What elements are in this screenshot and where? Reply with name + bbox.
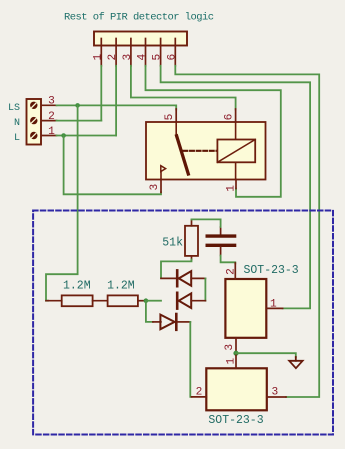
wire: node A down to D3 anode — [146, 301, 153, 322]
svg-text:6: 6 — [166, 54, 178, 61]
net label LS — [8, 103, 20, 114]
connector J1 pin 4 — [137, 39, 149, 66]
svg-text:N: N — [14, 118, 20, 129]
relay switch common line — [175, 122, 177, 135]
svg-text:1: 1 — [270, 298, 277, 310]
wire: R3 bottom to D1 cathode — [161, 260, 192, 278]
wire: node B to ground — [236, 353, 296, 357]
svg-text:51k: 51k — [162, 236, 183, 249]
resistor R2 1.2M — [93, 280, 144, 307]
svg-text:3: 3 — [149, 184, 161, 191]
connector J1 pin 1 — [92, 39, 104, 66]
wire: connector pin4 to relay pin1 — [146, 66, 281, 197]
relay coil box — [217, 140, 255, 163]
terminal block screw 1 — [30, 132, 37, 139]
svg-text:6: 6 — [223, 114, 235, 121]
Q1 pin 1 — [266, 298, 282, 310]
wire: node A to D2 cathode — [148, 300, 161, 302]
wire: LS junction down to R1 — [46, 105, 78, 300]
svg-text:3: 3 — [224, 344, 236, 351]
title note: Rest of PIR detector logic — [64, 12, 214, 24]
svg-text:2: 2 — [107, 54, 119, 61]
Q2 pin 1 — [225, 355, 237, 368]
terminal pin 3 — [42, 96, 57, 108]
relay pin 6 stub — [223, 109, 235, 122]
svg-text:2: 2 — [225, 268, 237, 275]
svg-text:3: 3 — [272, 387, 279, 399]
relay pin 1 stub — [226, 180, 238, 192]
Q1 pin 3 — [224, 338, 236, 351]
junction on L wire — [61, 133, 66, 138]
wire: D1 anode to D2 anode — [204, 278, 206, 300]
wire: L junction to relay pin3 — [64, 136, 161, 195]
wire: connector pin2 to L line — [115, 66, 117, 136]
svg-text:LS: LS — [8, 103, 20, 114]
svg-text:1: 1 — [226, 185, 238, 192]
svg-text:Rest of PIR detector logic: Rest of PIR detector logic — [64, 12, 214, 24]
wire: connector pin3 to relay pin6 — [131, 66, 236, 110]
svg-text:L: L — [14, 133, 20, 144]
dashed boundary box — [33, 211, 333, 435]
wire: LS to relay pin5 — [57, 105, 177, 109]
svg-text:SOT-23-3: SOT-23-3 — [208, 414, 263, 427]
diode D2 — [177, 293, 205, 309]
svg-text:5: 5 — [164, 114, 176, 121]
net label N — [14, 118, 20, 129]
transistor Q2 body SOT-23-3 — [206, 368, 266, 427]
wire: D3 cathode to Q2 pin2 — [190, 322, 191, 397]
svg-text:3: 3 — [48, 96, 55, 108]
svg-text:3: 3 — [122, 54, 134, 61]
svg-text:1: 1 — [92, 54, 104, 61]
Q2 pin 3 — [267, 387, 286, 399]
svg-text:2: 2 — [48, 111, 55, 123]
relay pin 3 stub — [149, 180, 161, 193]
relay coil line — [235, 122, 237, 180]
relay K1 body — [146, 122, 266, 180]
net label L — [14, 133, 20, 144]
connector J1 pin 2 — [107, 39, 119, 66]
svg-text:SOT-23-3: SOT-23-3 — [244, 264, 299, 277]
svg-text:1.2M: 1.2M — [107, 280, 135, 293]
connector J1 body — [94, 32, 187, 46]
terminal pin 2 — [42, 111, 57, 123]
capacitor C1 — [207, 227, 234, 256]
svg-text:1: 1 — [225, 358, 237, 365]
wire: connector pin5 to Q1 pin1 — [161, 66, 311, 309]
relay contact arrow — [161, 166, 166, 180]
junction node B — [233, 351, 238, 356]
svg-text:1: 1 — [48, 126, 55, 138]
svg-text:1.2M: 1.2M — [63, 280, 91, 293]
relay pin 5 stub — [164, 109, 176, 122]
connector J1 pin 5 — [152, 39, 164, 66]
connector J1 pin 3 — [122, 39, 134, 66]
resistor R1 1.2M — [46, 280, 93, 307]
wire: N to connector pin1 — [57, 120, 102, 122]
svg-text:2: 2 — [196, 387, 203, 399]
transistor Q1 body SOT-23-3 — [225, 264, 298, 338]
ground symbol — [289, 357, 302, 368]
relay switch blade — [177, 136, 189, 174]
svg-text:4: 4 — [137, 54, 149, 61]
terminal block TB1 body — [27, 99, 42, 145]
diode D1 — [161, 270, 205, 286]
wire: connector pin1 to N line — [100, 66, 102, 121]
junction on LS wire — [75, 103, 80, 108]
svg-text:5: 5 — [152, 54, 164, 61]
terminal block screw 3 — [30, 102, 37, 109]
terminal block screw 2 — [30, 117, 37, 124]
connector J1 pin 6 — [166, 39, 178, 66]
wire: C1 bottom to Q1 pin2 — [221, 256, 236, 264]
relay mechanical dashed link — [184, 150, 218, 152]
terminal pin 1 — [42, 126, 57, 138]
wire: L to connector pin2 — [57, 135, 117, 137]
Q2 pin 2 — [192, 387, 207, 399]
junction node A — [144, 298, 149, 303]
Q1 pin 2 — [225, 263, 237, 279]
wire: R3 top to C1 top — [192, 219, 221, 227]
wire: connector pin6 to Q2 pin3 — [175, 66, 319, 397]
resistor R3 51k — [162, 220, 198, 260]
diode D3 — [153, 314, 190, 330]
